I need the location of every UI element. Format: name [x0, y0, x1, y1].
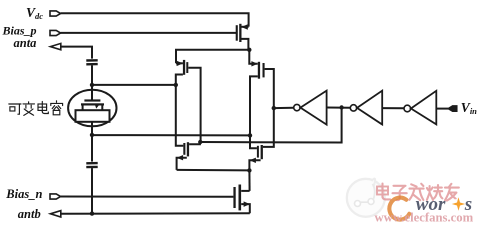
label 可变电容 (hand-drawn glyphs): [9, 101, 63, 116]
svg-text:Vdc: Vdc: [26, 5, 43, 21]
wire varactor-top to node A: [92, 84, 176, 86]
inverter U1 triangle: [300, 91, 326, 125]
wire bottom rail: [177, 169, 250, 172]
wire varactor-bottom to node B: [92, 134, 250, 136]
M2 channel bar: [258, 62, 260, 79]
transistor M4 right NMOS : gate bar: [257, 146, 259, 158]
node varactor-bottom junction: [90, 133, 94, 137]
port Bias_n: [50, 194, 61, 199]
svg-text:Bias_n: Bias_n: [5, 187, 42, 201]
wire C2 to antb: [91, 168, 93, 214]
wire node B down to M4 gate: [250, 135, 257, 148]
M1 gate wire to cross node: [188, 68, 200, 142]
M5 channel bar: [239, 24, 241, 42]
wire Bias_n: [61, 196, 234, 198]
M3 source arrow: [177, 155, 183, 160]
inverter U1 bubble: [294, 104, 300, 110]
node top-rail junction: [247, 48, 251, 52]
varactor gate lead: [91, 85, 93, 100]
capacitor C2: [86, 163, 97, 167]
svg-text:Vin: Vin: [461, 100, 477, 116]
M5 source arrow: [241, 24, 247, 29]
M3 source stub: [177, 158, 187, 170]
M2 gate bar: [263, 63, 265, 77]
M5 drain stub: [241, 39, 248, 50]
transistor M5 top PMOS current source : source stub: [242, 26, 249, 28]
wire antb: [61, 212, 250, 215]
watermark star halo: [453, 198, 464, 209]
varactor CV circle: [68, 90, 116, 127]
wire bottom rail down to M6: [248, 170, 250, 191]
wire U3 to V_in port: [436, 108, 448, 110]
watermark logo circle: [347, 179, 385, 217]
varactor bottom lead: [91, 122, 93, 135]
M1 source arrow: [177, 61, 183, 66]
port antb: [50, 211, 60, 217]
port anta: [50, 43, 60, 49]
watermark 电子发烧友 (hand-drawn pink glyphs): [377, 184, 459, 201]
transistor M3 left NMOS : gate bar: [183, 143, 185, 155]
M4 drain stub: [263, 108, 274, 147]
varactor left stub: [82, 105, 84, 110]
watermark star on k: [452, 197, 465, 210]
wire top rail: [176, 50, 249, 64]
M6 source arrow: [244, 201, 250, 207]
varactor channel bar: [81, 103, 104, 105]
varactor gate bar: [84, 99, 100, 101]
transistor M2 right PMOS : source riser: [249, 50, 257, 64]
node M3 drain junction: [198, 140, 202, 144]
node A junction: [174, 83, 178, 87]
port Bias_p: [50, 30, 61, 35]
M3 channel bar: [187, 142, 189, 156]
port V_dc: [50, 11, 61, 16]
inverter U3 triangle: [411, 91, 436, 125]
varactor bulk arrow: [95, 104, 100, 109]
inverter U2 bubble: [350, 105, 356, 111]
node inverter tap junction: [339, 105, 343, 109]
node B junction: [248, 133, 252, 137]
capacitor C1: [86, 60, 97, 64]
inverter U3 bubble: [404, 105, 411, 112]
wire cross net to inverter tap: [200, 108, 341, 143]
transistor M1 left PMOS : source stub: [176, 62, 183, 64]
wire varactor-bottom down: [91, 135, 93, 162]
transistor M6 bottom NMOS sink : drain stub: [241, 190, 249, 192]
svg-text:antb: antb: [18, 207, 41, 221]
M4 source stub: [249, 160, 260, 170]
wire U1 to U2: [327, 107, 351, 109]
wire V_dc rail: [61, 13, 249, 26]
wire inverter output to gates node: [274, 107, 294, 109]
wire node A down to M3 gate: [176, 85, 184, 146]
M2 drain stub: [250, 76, 258, 135]
M2 gate wire: [265, 69, 274, 108]
svg-text:anta: anta: [14, 36, 37, 50]
node antb junction: [90, 211, 94, 215]
M5 gate bar: [236, 25, 238, 41]
M4 source arrow: [250, 158, 256, 163]
svg-text:www.elecfans.com: www.elecfans.com: [375, 210, 474, 224]
node varactor-top junction: [90, 83, 94, 87]
M6 channel bar: [239, 185, 242, 211]
inverter U2 triangle: [357, 91, 382, 125]
wire anta: [61, 47, 92, 59]
M2 source arrow: [251, 61, 257, 66]
wire Bias_p: [61, 32, 236, 34]
wire U2 to U3: [382, 107, 404, 109]
M3 drain stub: [189, 142, 200, 144]
M6 source stub: [241, 204, 250, 213]
M1 channel bar: [183, 60, 185, 75]
M4 channel bar: [261, 145, 263, 159]
watermark orange e swoosh: [389, 198, 409, 220]
node bottom-rail junction: [247, 168, 251, 172]
M1 gate bar: [186, 62, 188, 73]
node inverter-out junction: [272, 106, 276, 110]
varactor bottom plate tub: [76, 110, 110, 122]
port V_in: [448, 106, 457, 111]
M6 gate bar: [233, 187, 235, 208]
wire C1 to node anta2: [91, 65, 93, 85]
varactor right stub: [101, 105, 103, 110]
M1 drain stub: [176, 75, 183, 85]
